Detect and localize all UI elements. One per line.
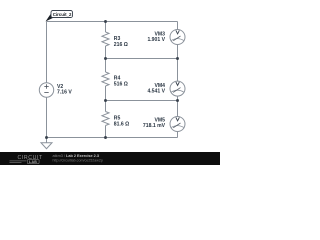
svg-text:81.6 Ω: 81.6 Ω [114, 122, 129, 128]
svg-text:http://circuitlab.com/ce252aw2: http://circuitlab.com/ce252aw2p [53, 159, 103, 163]
svg-text:Circuit_2: Circuit_2 [53, 12, 72, 17]
svg-text:7.16 V: 7.16 V [57, 89, 72, 95]
svg-text:LAB: LAB [29, 160, 37, 164]
svg-text:1.901 V: 1.901 V [147, 37, 165, 43]
svg-text:718.1 mV: 718.1 mV [143, 123, 166, 129]
svg-text:216 Ω: 216 Ω [114, 42, 128, 48]
svg-text:atkm3 / Lab 2 Exercise 2.3: atkm3 / Lab 2 Exercise 2.3 [53, 154, 99, 158]
svg-text:4.541 V: 4.541 V [147, 89, 165, 95]
svg-text:516 Ω: 516 Ω [114, 81, 128, 87]
